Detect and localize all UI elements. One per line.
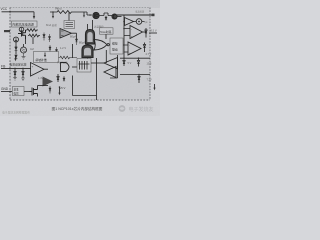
diode D7 [75,39,77,45]
IC boundary dashed box right [149,8,151,101]
zener D17 [138,75,140,84]
IC boundary dashed box left [9,8,11,101]
zener D9 [145,28,147,38]
buffer U2 triangle [125,18,134,26]
ground gnd1 [13,78,17,81]
zener D11 [14,68,16,77]
pin drain tick [152,14,155,17]
ground gnd2 [21,78,25,81]
wires G1 inputs [88,20,93,30]
transistor Q6 [112,14,117,19]
zener D16 small [123,58,125,66]
wire U7 out [72,33,77,39]
zener D1 [15,47,18,50]
node dot [89,14,91,16]
wire drain top [117,14,153,16]
wires U3 inputs [124,29,130,36]
oscillator OSC circle [21,47,27,53]
wire U5 out [44,68,48,70]
wire latch down [105,50,107,63]
wire driver link [91,62,104,64]
zener D12 [22,68,24,78]
mosfet drain rail [110,55,118,78]
resistor Rlimit [50,11,81,14]
paper grain [0,0,1,1]
diode D18 [49,86,51,94]
node VCC junction [9,11,11,13]
pin tick left [4,30,10,32]
block ramp box [34,52,59,63]
gate G3 and [94,40,107,51]
wire continue [99,13,112,16]
current source I2 [14,37,19,42]
wire box to current source [21,26,23,28]
IC boundary dashed box top [10,7,150,9]
zener D10 [143,43,145,53]
wire G4 out [72,66,77,68]
driver triangle B [104,67,116,78]
wire to drain bus [117,16,122,18]
comparator U4 [128,42,141,55]
diode D8 [105,16,107,20]
current source I1 [19,27,24,32]
wire arrow down [59,87,61,93]
block oscillator box [64,21,75,29]
wire riser [72,44,74,58]
sense element circle [136,19,142,25]
top margin strip [0,0,160,8]
driver triangle A [104,58,118,69]
resistor R3 chain [26,29,39,32]
wire G3 out [109,44,110,46]
wire q1 drop [25,39,27,44]
schematic interior [10,8,150,101]
wire [24,91,31,93]
op-amp U5 [31,63,45,77]
transistor Q7 [30,86,38,97]
wire U3 out [143,31,147,33]
pin tick right [149,32,157,34]
block 内部高压电流源 box [12,21,38,27]
resistor R4 [28,34,40,37]
block driver box [77,59,91,73]
wire VCC入 [2,11,35,13]
wire I2 down [15,42,17,47]
watermark logo [119,105,154,113]
wire to startup fet [81,12,92,15]
rail lower [120,74,150,76]
wire arrow into startup source [33,12,35,17]
transistor Q1 [18,30,26,39]
diode D5 [49,45,51,52]
diode D6 arrow [55,47,57,52]
wire GND row [1,91,12,93]
node sense tap [123,21,125,23]
wire osc up [23,44,25,47]
IC boundary dashed box bottom [10,99,150,101]
wire drain riser [123,15,125,58]
diode D3 [43,33,45,41]
pin arrow bottom right [154,84,156,88]
wire FB [1,67,31,69]
wire junction drop [52,12,54,17]
block timer box [100,28,114,34]
op-amp U7 [60,29,72,39]
diode D4 with arrow [48,34,50,42]
gate G4 and [61,63,70,72]
wire [38,85,49,87]
wire arrow small [83,12,85,16]
wire timer to G3 [105,34,107,39]
block power stage box [73,58,97,100]
ground osc [22,53,26,59]
zener D15 [137,58,139,66]
wires U4 [123,45,128,52]
wire r4 drop [32,37,34,44]
gate G1 nor-up [86,30,95,45]
zener D2 [15,55,18,58]
thermal glyph [79,61,90,70]
block ref box [13,87,25,96]
rail upper [120,57,150,59]
gate G2 [82,45,93,58]
block latch box [110,38,123,54]
comparator U3 [130,26,143,39]
resistor R2 [59,56,78,59]
node [59,86,61,88]
wire stub box [68,12,70,21]
paper background [0,0,160,116]
transistor Q5 startup [93,12,99,18]
diode D14 [63,76,65,81]
diode D13 [57,74,59,82]
comparator U6 low [43,77,54,87]
wire arrow into fb [15,55,17,59]
